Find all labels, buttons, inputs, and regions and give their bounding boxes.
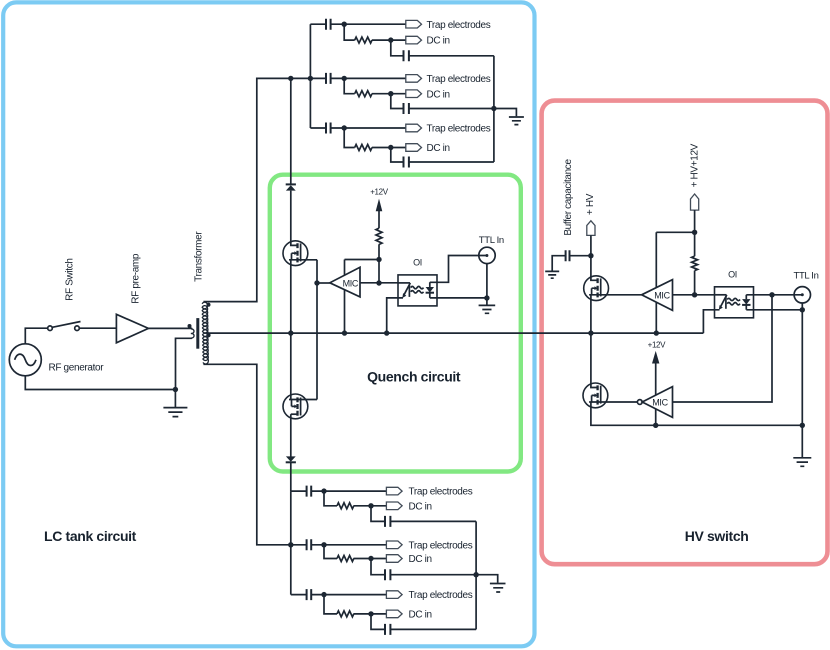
- svg-text:MIC: MIC: [652, 398, 668, 408]
- capacitor top unit3 DC filter: [404, 157, 409, 168]
- wire OI U4 top output to TTL connector: [754, 294, 803, 296]
- svg-text:Buffer capacitance: Buffer capacitance: [563, 159, 574, 236]
- node OI return / ground junction: [800, 307, 805, 312]
- resistor top unit3: [355, 145, 372, 151]
- Quench circuit frame (green): [270, 175, 521, 472]
- wire pre-amp to transformer primary: [148, 327, 192, 329]
- capacitor top unit2 DC filter: [404, 103, 409, 114]
- node top feed / quench bus junction: [288, 76, 293, 81]
- svg-text:Quench circuit: Quench circuit: [367, 369, 461, 385]
- node bottom unit3 DC junction: [368, 611, 373, 616]
- wire HV bus to MOSFET Q3: [591, 256, 598, 281]
- resistor top unit2: [355, 91, 372, 97]
- wire quench bus Q1 to Q2: [290, 260, 292, 400]
- wire top unit3 trap row: [310, 127, 405, 129]
- opto U4 pins: [715, 295, 754, 310]
- connector bottom unit2 DC in: [386, 555, 402, 563]
- wire bottom unit2 cap row to right bus: [371, 559, 476, 575]
- wire quench bus upper: [290, 78, 292, 184]
- wire OI U2 top output to TTL connector: [437, 256, 487, 283]
- wire top unit1 cap row to right bus: [391, 40, 494, 56]
- node top unit3 DC junction: [388, 145, 393, 150]
- wire secondary top lead to top bus: [203, 78, 290, 301]
- transformer T1 primary polarity dot: [188, 324, 192, 328]
- opto U2 optical link: [411, 286, 424, 293]
- svg-text:DC in: DC in: [409, 610, 432, 621]
- svg-text:DC in: DC in: [409, 501, 432, 512]
- opto U4 photodiode: [745, 295, 747, 310]
- power +12V arrow (HV): [652, 351, 659, 364]
- connector bottom unit1 DC in: [386, 502, 402, 510]
- wire RF generator top to switch: [25, 328, 47, 344]
- svg-text:DC in: DC in: [427, 89, 450, 100]
- node bottom unit3 trap junction: [321, 592, 326, 597]
- node ground rail junction: [173, 387, 178, 392]
- op-amp RF pre-amp: [116, 314, 148, 343]
- connector + HV: [587, 221, 595, 236]
- RF generator source symbol: [9, 344, 41, 376]
- wire MIC U1 supply top rail: [345, 259, 380, 261]
- capacitor top unit3 trap: [326, 123, 331, 134]
- opto U2 LED: [398, 282, 410, 284]
- connector top unit3 Trap electrodes: [406, 124, 422, 132]
- svg-text:Trap electrodes: Trap electrodes: [409, 590, 473, 601]
- capacitor buffer: [552, 256, 591, 271]
- svg-text:TTL In: TTL In: [794, 271, 819, 282]
- svg-text:+12V: +12V: [648, 341, 667, 350]
- capacitor bottom unit1 DC filter: [385, 516, 390, 527]
- wire top unit1 trap row: [310, 23, 405, 25]
- resistor R1 pull-up: [376, 228, 382, 244]
- svg-text:Trap electrodes: Trap electrodes: [409, 487, 473, 498]
- node pull-up to gate line junction: [692, 292, 697, 297]
- connector top unit3 DC in: [406, 144, 422, 152]
- node bottom unit1 trap junction: [321, 488, 326, 493]
- wire bottom unit3 cap row to right bus: [371, 614, 476, 630]
- connector bottom unit3 DC in: [386, 610, 402, 618]
- node bottom rail / U5 ground junction: [653, 423, 658, 428]
- wire bottom unit3 DC row: [324, 595, 386, 614]
- node top unit2 trap junction: [342, 76, 347, 81]
- op-amp MIC U5 with inverting bubble: [637, 400, 642, 405]
- opto U4 LED: [715, 294, 727, 296]
- wire bottom bus: [290, 491, 292, 594]
- wire +12V stem: [378, 211, 380, 228]
- node bottom unit2 trap junction: [321, 542, 326, 547]
- opto-isolator U2 box: [398, 275, 437, 306]
- switch S1 right contact: [75, 326, 80, 331]
- svg-text:+12V: +12V: [370, 188, 389, 197]
- wire bottom bus to ground: [476, 575, 498, 583]
- opto-isolator U4 box: [715, 287, 754, 318]
- wire quench bus lower: [290, 463, 292, 492]
- svg-text:OI: OI: [413, 258, 422, 268]
- wire bottom unit1 trap row: [291, 490, 387, 492]
- svg-text:MIC: MIC: [343, 278, 359, 288]
- connector top unit1 Trap electrodes: [406, 20, 422, 28]
- wire Q1 source row / gate lead: [289, 259, 317, 261]
- wire OI U2 bottom output: [437, 297, 487, 299]
- connector + HV+12V: [691, 194, 699, 210]
- wire bottom unit1 DC row: [324, 491, 386, 506]
- wire MIC U3 output to OI U4: [673, 294, 715, 296]
- MOSFET Q3: [584, 276, 609, 301]
- node TTL ground junction: [484, 295, 489, 300]
- wire MIC U1 output to OI U2: [360, 282, 398, 284]
- RF generator sine mark: [15, 354, 36, 365]
- svg-text:RF Switch: RF Switch: [65, 258, 76, 300]
- transformer T1 tap polarity dot: [207, 333, 211, 337]
- switch S1 lever: [52, 322, 80, 328]
- resistor bottom unit2: [337, 556, 354, 562]
- wire Q2 gate row: [289, 399, 317, 401]
- connector top unit2 Trap electrodes: [406, 75, 422, 83]
- wire top unit2 cap row to right bus: [391, 94, 494, 109]
- node bottom feed junction: [288, 542, 293, 547]
- wire quench bus Q2 to D2: [290, 414, 292, 457]
- ground bottom section: [490, 584, 506, 593]
- power +12V arrow: [376, 199, 383, 212]
- transformer T1 secondary top polarity dot: [207, 303, 211, 307]
- wire HV bus Q3 to Q4: [591, 295, 598, 388]
- capacitor top unit1 trap: [326, 19, 331, 30]
- wire secondary bottom lead to bottom bus: [203, 364, 290, 545]
- switch S1 left contact: [48, 326, 53, 331]
- node bottom right bus ground junction: [473, 572, 478, 577]
- node bottom unit1 DC junction: [368, 503, 373, 508]
- wire primary bottom to ground rail: [176, 338, 192, 389]
- wire top unit2 trap row: [331, 77, 406, 79]
- node HV bus / main bus junction: [588, 330, 593, 335]
- connector top unit2 DC in: [406, 90, 422, 98]
- wire top unit2 DC row: [344, 78, 406, 93]
- wire HV bottom rail: [591, 402, 802, 425]
- wire U3 supply rail: [656, 231, 694, 233]
- diode D2: [286, 456, 296, 461]
- wire MIC U1 supply drop to main bus: [344, 260, 346, 334]
- svg-text:OI: OI: [728, 270, 737, 280]
- node top feed / distribution bus junction: [308, 76, 313, 81]
- wire pull-up resistor bottom: [378, 244, 380, 283]
- svg-text:HV switch: HV switch: [685, 528, 749, 544]
- node bottom unit2 DC junction: [368, 556, 373, 561]
- svg-text:Trap electrodes: Trap electrodes: [427, 20, 491, 31]
- connector top unit1 DC in: [406, 36, 422, 44]
- node pull-up to gate line junction: [376, 280, 381, 285]
- connector TTL In (quench): [479, 247, 495, 263]
- wire top unit3 DC row: [344, 128, 406, 148]
- wire +HV+12V to rail: [694, 210, 696, 256]
- ground HV right: [801, 425, 803, 457]
- wire bottom unit1 cap row to right bus: [371, 506, 476, 522]
- wire MIC U3 supply drop: [655, 232, 657, 333]
- node main bus / MIC ground junction: [342, 330, 347, 335]
- wire resistor to gate line: [694, 271, 696, 295]
- op-amp MIC U3: [642, 280, 673, 311]
- svg-text:DC in: DC in: [427, 36, 450, 47]
- wire +HV to bus: [590, 235, 592, 255]
- ground buffer: [545, 271, 559, 278]
- resistor R2 pull-up: [692, 256, 698, 270]
- wire U5 input from TTL line: [673, 295, 773, 402]
- svg-text:LC tank circuit: LC tank circuit: [44, 528, 137, 544]
- capacitor top unit2 trap: [326, 73, 331, 84]
- wire gate drive vertical: [316, 260, 318, 400]
- svg-text:TTL In: TTL In: [479, 235, 504, 246]
- capacitor bottom unit3 DC filter: [385, 624, 390, 635]
- resistor bottom unit3: [337, 611, 354, 617]
- connector bottom unit3 Trap electrodes: [386, 591, 402, 599]
- wire ground drop right: [801, 310, 803, 426]
- node main bus / OI return junction: [384, 330, 389, 335]
- node top unit1 trap junction: [342, 22, 347, 27]
- HV switch frame (red): [542, 101, 828, 565]
- resistor bottom unit1: [337, 503, 354, 509]
- wire bottom unit2 trap row: [291, 544, 387, 546]
- svg-text:Transformer: Transformer: [193, 231, 204, 282]
- node bottom rail right junction: [800, 423, 805, 428]
- connector TTL In (HV): [794, 287, 810, 303]
- opto U2 output pins: [398, 282, 437, 298]
- LC tank circuit frame (blue): [3, 2, 534, 646]
- wire top right bus: [493, 56, 495, 162]
- svg-text:RF generator: RF generator: [49, 363, 105, 374]
- wire bottom unit2 DC row: [324, 545, 386, 559]
- wire top unit3 cap row to right bus: [391, 148, 494, 163]
- ground top section: [509, 117, 524, 125]
- node TTL line / MIC U5 input junction: [769, 292, 774, 297]
- node top unit2 DC junction: [388, 91, 393, 96]
- wire top feed to unit2 capacitor: [291, 77, 326, 79]
- svg-text:Trap electrodes: Trap electrodes: [427, 74, 491, 85]
- connector bottom unit1 Trap electrodes: [386, 487, 402, 495]
- wire TTL connector ground stub: [486, 264, 488, 298]
- transformer T1 secondary coil: [202, 302, 208, 364]
- transformer T1 core: [196, 318, 199, 349]
- node MIC supply rail junction: [376, 257, 381, 262]
- wire Q2 drain bend: [291, 413, 298, 415]
- wire main bus up to OI U4 return: [703, 310, 714, 333]
- node gate drive junction: [314, 280, 319, 285]
- wire RF generator bottom rail: [25, 376, 175, 390]
- capacitor bottom unit2 trap: [307, 539, 312, 550]
- wire OI U2 return to main bus: [387, 298, 398, 333]
- svg-text:DC in: DC in: [409, 554, 432, 565]
- ground main: [174, 390, 176, 408]
- svg-text:+ HV+12V: + HV+12V: [690, 143, 701, 187]
- wire OI U4 bottom output: [754, 309, 803, 311]
- connector bottom unit2 Trap electrodes: [386, 541, 402, 549]
- node main bus / U3 ground junction: [654, 330, 659, 335]
- node main bus / quench bus junction: [288, 330, 293, 335]
- wire Q4 gate row: [589, 401, 637, 403]
- node buffer cap junction: [588, 253, 593, 258]
- wire switch to pre-amp: [79, 327, 116, 329]
- wire top unit1 DC row: [344, 24, 406, 40]
- node +HV+12V rail junction: [692, 230, 697, 235]
- wire bottom unit3 trap row: [291, 594, 387, 596]
- node top unit1 DC junction: [388, 37, 393, 42]
- svg-text:Trap electrodes: Trap electrodes: [427, 124, 491, 135]
- wire main bus (transformer tap to HV OI): [207, 332, 704, 334]
- wire TTL connector ground stub: [801, 303, 803, 310]
- ground quench TTL: [486, 298, 488, 305]
- node top right bus ground junction: [491, 106, 496, 111]
- svg-text:DC in: DC in: [427, 143, 450, 154]
- svg-text:+ HV: + HV: [585, 193, 596, 215]
- diode D1: [286, 183, 296, 185]
- wire top distribution bus: [309, 24, 311, 128]
- MOSFET Q1: [283, 241, 308, 266]
- wire +12V stem through MIC U5: [655, 364, 657, 426]
- resistor top unit1: [355, 37, 372, 43]
- wire bottom right bus: [475, 521, 477, 629]
- wire gate node to MIC U1: [317, 282, 330, 284]
- svg-text:MIC: MIC: [654, 290, 670, 300]
- op-amp MIC U1: [330, 267, 360, 297]
- capacitor top unit1 DC filter: [404, 50, 409, 61]
- transformer T1 primary coil: [191, 329, 194, 338]
- capacitor bottom unit2 DC filter: [385, 569, 390, 580]
- MOSFET Q2: [283, 394, 308, 419]
- capacitor bottom unit1 trap: [307, 486, 312, 497]
- opto U4 optical link: [727, 298, 740, 305]
- svg-text:RF pre-amp: RF pre-amp: [130, 253, 141, 304]
- wire Q3 gate row to MIC U3: [589, 294, 642, 296]
- wire top bus to ground: [494, 109, 517, 117]
- opto U2 photodiode: [429, 282, 431, 298]
- node top unit3 trap junction: [342, 125, 347, 130]
- MOSFET Q4: [583, 383, 608, 408]
- svg-text:Trap electrodes: Trap electrodes: [409, 540, 473, 551]
- capacitor bottom unit3 trap: [307, 589, 312, 600]
- wire quench bus to MOSFET Q1: [291, 191, 298, 246]
